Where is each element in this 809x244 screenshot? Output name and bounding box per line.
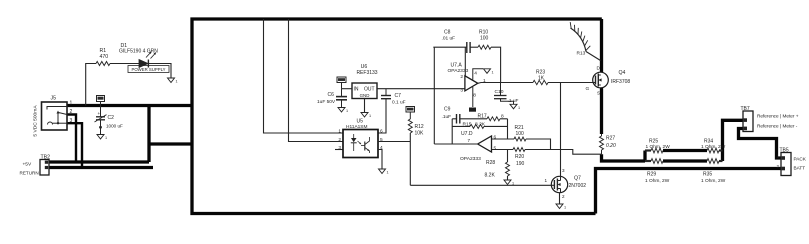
- svg-text:190: 190: [516, 161, 525, 167]
- wire J5 pin2 return: [67, 115, 76, 163]
- wire D1 cathode down: [148, 64, 171, 79]
- svg-text:U7.A: U7.A: [451, 63, 463, 69]
- svg-text:1: 1: [564, 206, 566, 210]
- wire opto pin3 stub: [335, 149, 343, 151]
- svg-text:1: 1: [70, 100, 73, 106]
- testpoint TP1: [97, 96, 105, 102]
- wire row2 mid thick: [663, 159, 707, 162]
- ground U5 pin4: [379, 169, 386, 174]
- wire U6 IN: [342, 88, 353, 90]
- resistor R28: [506, 162, 510, 176]
- wire rows right vertical to TB7: [723, 120, 744, 161]
- connector J5 box: [42, 102, 68, 130]
- svg-text:1: 1: [346, 109, 348, 113]
- testpoint TP2: [337, 77, 346, 83]
- svg-text:1: 1: [512, 182, 514, 186]
- svg-text:R35: R35: [703, 171, 712, 177]
- svg-text:1 Ohm, 2W: 1 Ohm, 2W: [701, 178, 726, 184]
- svg-text:IRF3708: IRF3708: [611, 79, 630, 85]
- wire R17 to V3: [500, 118, 508, 120]
- svg-text:1: 1: [369, 114, 371, 118]
- svg-text:10K: 10K: [415, 131, 425, 137]
- svg-text:C9: C9: [444, 107, 451, 113]
- svg-text:1: 1: [105, 136, 107, 140]
- wire branch B: [149, 142, 192, 145]
- svg-text:100: 100: [480, 36, 489, 42]
- wire U6 OUT reference rail: [377, 88, 465, 90]
- wire U7D pin5 row: [492, 149, 514, 151]
- svg-text:RETURN: RETURN: [20, 170, 39, 175]
- svg-text:1000 uF: 1000 uF: [106, 124, 123, 129]
- svg-text:BATT: BATT: [794, 165, 806, 170]
- wire V2 vertical: [451, 119, 453, 144]
- svg-text:+5V: +5V: [23, 161, 32, 167]
- wire R28 stub: [507, 150, 509, 163]
- wire U6 GND down: [364, 99, 366, 113]
- connector TB5 box: [781, 153, 791, 176]
- svg-text:7: 7: [467, 138, 470, 143]
- svg-text:REF3133: REF3133: [356, 70, 377, 76]
- wire TB2 pin2 RETURN: [49, 166, 153, 169]
- ground C10: [510, 104, 517, 109]
- svg-text:R28: R28: [486, 160, 495, 166]
- svg-text:TB2: TB2: [41, 154, 51, 160]
- wire opto pin1 from rail: [264, 19, 344, 133]
- svg-text:U7.D: U7.D: [461, 131, 473, 137]
- svg-text:1: 1: [544, 178, 547, 183]
- resistor R20: [513, 148, 525, 152]
- svg-text:R12: R12: [415, 124, 424, 130]
- svg-text:Q7: Q7: [574, 176, 581, 182]
- svg-text:R17: R17: [478, 114, 487, 120]
- svg-text:R27: R27: [606, 135, 615, 141]
- svg-text:Reference | Meter +: Reference | Meter +: [757, 113, 799, 118]
- svg-text:R20: R20: [515, 154, 524, 160]
- wire Q7 source to ground: [559, 193, 561, 204]
- svg-text:100: 100: [516, 131, 525, 137]
- wire U7A output row: [478, 82, 533, 85]
- svg-text:3: 3: [460, 88, 463, 94]
- wire J5 pin3 return: [67, 123, 82, 167]
- svg-text:6: 6: [380, 128, 383, 134]
- testpoint TP3: [406, 107, 415, 113]
- ground D1: [168, 78, 175, 83]
- svg-text:D: D: [597, 66, 601, 72]
- wire sense jog to shunt: [551, 150, 602, 155]
- svg-text:1: 1: [387, 171, 389, 175]
- wire main BATT- line to TB5: [596, 169, 782, 214]
- svg-text:TB7: TB7: [741, 106, 750, 112]
- wire U7A pin8 down: [472, 87, 474, 107]
- wire C7 to opto pin6: [378, 99, 386, 133]
- svg-text:J5: J5: [51, 96, 57, 102]
- wire +5V from J5 pin1 to rail: [67, 104, 192, 107]
- wire V3 vertical: [507, 119, 509, 139]
- svg-text:1 Ohm, 2W: 1 Ohm, 2W: [646, 144, 671, 150]
- wire TB2 pin1 +5V: [49, 160, 149, 163]
- resistor R25: [645, 149, 651, 151]
- svg-text:.1uF: .1uF: [442, 114, 452, 120]
- wire U7D output row: [434, 143, 477, 145]
- svg-text:C2: C2: [108, 115, 115, 121]
- svg-text:R15: R15: [463, 121, 472, 127]
- svg-text:2: 2: [338, 137, 341, 143]
- op-amp U7A: [465, 76, 478, 91]
- svg-text:.1 uF: .1 uF: [508, 98, 519, 104]
- svg-text:2N7002: 2N7002: [569, 183, 587, 189]
- wire U7D pin6 row: [492, 138, 515, 140]
- svg-text:Reference | Meter -: Reference | Meter -: [757, 123, 798, 128]
- svg-text:H11A1SM: H11A1SM: [346, 124, 368, 130]
- svg-text:6: 6: [494, 135, 497, 141]
- svg-text:C7: C7: [395, 93, 402, 99]
- wire opto pin2 from rail: [289, 19, 344, 142]
- U5 internal LED: [351, 138, 357, 142]
- capacitor C9: [452, 118, 456, 120]
- svg-text:POWER SUPPLY: POWER SUPPLY: [131, 67, 165, 72]
- svg-text:1: 1: [492, 70, 494, 74]
- regulator U6 REF3133 box: [352, 83, 377, 99]
- wire U7A pin4 to ground: [473, 69, 483, 80]
- connector TB7 box: [743, 111, 753, 132]
- resistor R15: [452, 125, 470, 127]
- ground Q7: [556, 204, 563, 209]
- wire U5 pin5 to R12 node: [378, 141, 410, 143]
- wire Q7 drain vertical: [560, 83, 562, 177]
- wire heater to Q4 drain: [586, 52, 601, 61]
- svg-text:2: 2: [460, 74, 463, 80]
- svg-text:1: 1: [518, 106, 520, 110]
- wire feedback row: [433, 46, 466, 48]
- svg-text:3: 3: [70, 118, 73, 124]
- svg-text:5 VDC 500mA: 5 VDC 500mA: [33, 105, 39, 137]
- resistor R34: [707, 148, 719, 153]
- svg-text:TB5: TB5: [780, 148, 789, 154]
- resistor R35: [707, 159, 719, 164]
- wire pin2 stub: [464, 47, 466, 76]
- heater R13 arc: [571, 28, 587, 52]
- wire R1 branch: [86, 64, 96, 106]
- svg-text:Q4: Q4: [619, 70, 626, 76]
- svg-text:R13: R13: [577, 51, 586, 57]
- wire long input V1: [433, 47, 435, 144]
- ground C2: [97, 135, 104, 140]
- svg-text:1K: 1K: [538, 75, 545, 81]
- svg-text:1uF 50V: 1uF 50V: [317, 99, 336, 105]
- wire U5 pin4 to ground: [378, 150, 382, 170]
- svg-text:GND: GND: [360, 93, 370, 98]
- wire Q4 source to shunt: [600, 88, 603, 134]
- wire R12 bottom to gate line: [409, 133, 411, 185]
- svg-text:8.2K: 8.2K: [475, 121, 486, 127]
- flag U7A pin8: [469, 108, 476, 112]
- capacitor C2: [100, 106, 102, 117]
- wire Q7 gate line: [410, 184, 551, 186]
- resistor R23: [533, 80, 548, 84]
- svg-text:0.1 uF: 0.1 uF: [392, 100, 406, 106]
- ground C6: [338, 108, 345, 113]
- optocoupler U5 H11A1SM box: [343, 130, 378, 158]
- op-amp U7D: [478, 136, 492, 152]
- svg-text:U5: U5: [357, 119, 364, 125]
- svg-text:5: 5: [494, 146, 497, 152]
- resistor R21: [514, 137, 526, 141]
- svg-text:1 Ohm, 2W: 1 Ohm, 2W: [645, 178, 670, 184]
- wire R21 to corner: [526, 139, 551, 150]
- U5 internal transistor: [364, 142, 366, 151]
- wire shunt bottom elbow to resistor rows: [602, 154, 646, 161]
- resistor R12: [408, 119, 412, 133]
- svg-text:3: 3: [338, 145, 341, 151]
- wire R28 to ground: [507, 176, 509, 180]
- capacitor C8: [466, 42, 468, 53]
- svg-text:IN: IN: [354, 87, 359, 93]
- svg-text:+: +: [98, 111, 101, 116]
- LED D1: [139, 60, 148, 68]
- connector J5 internal jack symbol: [47, 107, 67, 110]
- connector TB2 box: [40, 160, 49, 176]
- svg-text:C10: C10: [495, 89, 504, 95]
- svg-text:R34: R34: [704, 139, 713, 145]
- capacitor C10: [500, 83, 502, 96]
- wire row1 mid thick: [663, 149, 707, 152]
- wire rows left vertical: [643, 151, 646, 162]
- ground U6: [361, 113, 368, 118]
- wire R10 to output drop: [491, 47, 501, 82]
- svg-text:3: 3: [562, 168, 565, 173]
- resistor R1: [96, 62, 110, 66]
- svg-text:1: 1: [176, 80, 178, 84]
- svg-text:1: 1: [483, 78, 486, 84]
- ground U7A pin4: [484, 69, 491, 74]
- svg-text:OPA2333: OPA2333: [460, 156, 481, 162]
- resistor R10: [478, 45, 491, 49]
- svg-text:0.20: 0.20: [606, 143, 616, 149]
- svg-text:.01 uF: .01 uF: [442, 36, 456, 42]
- svg-text:4: 4: [474, 70, 477, 76]
- wire R23 to Q4 gate: [548, 82, 593, 84]
- svg-text:2: 2: [562, 194, 565, 199]
- svg-text:G: G: [586, 86, 590, 92]
- svg-text:GILF5190 4 GRN: GILF5190 4 GRN: [119, 48, 158, 54]
- wire R1 to D1: [110, 63, 139, 65]
- wire R20 to corner: [525, 149, 551, 151]
- wire +5V thick rail (top/left/bottom loop): [192, 19, 602, 214]
- ground R28: [504, 180, 511, 185]
- capacitor C6: [341, 89, 343, 97]
- svg-text:2: 2: [70, 109, 73, 115]
- svg-text:S: S: [597, 91, 600, 97]
- capacitor C7: [385, 89, 387, 96]
- svg-text:470: 470: [100, 54, 109, 60]
- svg-text:PACK: PACK: [794, 156, 807, 161]
- svg-text:C6: C6: [328, 92, 335, 98]
- wire junction vertical A to TB2: [147, 106, 150, 163]
- transistor Q4 IRF3708: [593, 72, 609, 88]
- svg-text:OUT: OUT: [364, 87, 375, 93]
- transistor Q7 2N7002: [551, 176, 567, 192]
- label POWER SUPPLY: [128, 66, 169, 73]
- svg-text:R25: R25: [649, 139, 658, 145]
- wire Q4 drain from rail: [600, 19, 603, 72]
- wire TB7 pin2 to TB5 pin1: [739, 129, 782, 159]
- svg-text:C8: C8: [444, 30, 451, 36]
- resistor R17: [487, 117, 500, 121]
- svg-text:1: 1: [338, 128, 341, 134]
- svg-text:8.2K: 8.2K: [485, 172, 496, 178]
- svg-text:R29: R29: [647, 171, 656, 177]
- svg-text:8: 8: [473, 92, 476, 98]
- resistor R29: [645, 160, 651, 162]
- svg-text:1 Ohm, 2W: 1 Ohm, 2W: [701, 144, 726, 150]
- resistor R27 shunt: [601, 134, 603, 136]
